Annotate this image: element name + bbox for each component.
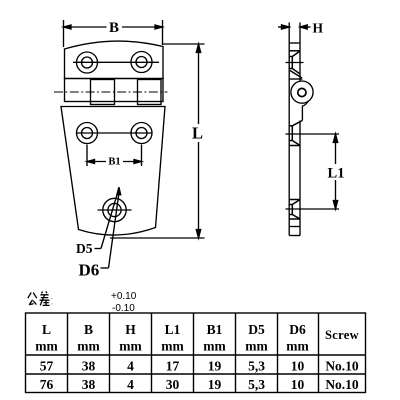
side view strip bottom edge bbox=[289, 235, 300, 237]
svg-text:38: 38 bbox=[82, 377, 96, 392]
svg-text:38: 38 bbox=[82, 359, 96, 374]
bottom plate holes center line bbox=[76, 132, 153, 134]
table data row 2 bbox=[40, 377, 359, 392]
countersunk hole 1 (section) bbox=[286, 51, 304, 74]
pivot lobe bbox=[289, 71, 313, 121]
dimension H arrows bbox=[278, 25, 311, 29]
svg-text:30: 30 bbox=[166, 377, 180, 392]
svg-text:4: 4 bbox=[127, 359, 134, 374]
side view strip right edge lower bbox=[299, 121, 301, 236]
countersunk hole 3 (section) bbox=[286, 200, 304, 220]
svg-text:mm: mm bbox=[35, 339, 58, 354]
table header row bbox=[35, 322, 359, 354]
svg-text:L: L bbox=[192, 124, 203, 143]
svg-text:D5: D5 bbox=[248, 322, 265, 337]
side view strip left edge bbox=[288, 23, 290, 236]
svg-text:76: 76 bbox=[40, 377, 54, 392]
svg-text:D6: D6 bbox=[289, 322, 306, 337]
svg-text:mm: mm bbox=[77, 339, 100, 354]
side view strip bottom cap bbox=[289, 226, 300, 228]
dimension B extension line left bbox=[63, 20, 65, 47]
leader line D6 bbox=[101, 187, 121, 268]
svg-text:17: 17 bbox=[166, 359, 180, 374]
leader line D5 bbox=[95, 193, 118, 249]
svg-text:19: 19 bbox=[208, 359, 222, 374]
svg-text:57: 57 bbox=[40, 359, 54, 374]
center bottom hole inner bbox=[108, 203, 121, 216]
svg-text:L1: L1 bbox=[165, 322, 181, 337]
svg-text:5,3: 5,3 bbox=[248, 359, 265, 374]
svg-text:4: 4 bbox=[127, 377, 134, 392]
svg-text:B1: B1 bbox=[207, 322, 223, 337]
top plate hole right inner bbox=[136, 57, 147, 68]
svg-text:mm: mm bbox=[245, 339, 268, 354]
svg-text:H: H bbox=[125, 322, 136, 337]
svg-text:B1: B1 bbox=[108, 157, 120, 168]
dimension B line bbox=[64, 25, 163, 29]
dimension B1 extension line left bbox=[86, 145, 88, 167]
hinge top plate outline bbox=[65, 41, 164, 78]
svg-text:10: 10 bbox=[291, 359, 305, 374]
dimension L extension line bottom bbox=[110, 237, 205, 239]
dimension L1 extension line top bbox=[304, 133, 340, 135]
dimension L line bbox=[196, 44, 200, 238]
svg-text:mm: mm bbox=[286, 339, 309, 354]
svg-text:No.10: No.10 bbox=[325, 359, 359, 374]
svg-text:Screw: Screw bbox=[325, 328, 359, 342]
side view strip right edge upper bbox=[299, 23, 301, 82]
bottom plate hole right inner bbox=[136, 128, 147, 139]
svg-text:5,3: 5,3 bbox=[248, 377, 265, 392]
knuckle box 4 bbox=[138, 80, 162, 105]
svg-text:+0.10: +0.10 bbox=[111, 291, 137, 302]
hinge bottom plate outline bbox=[61, 107, 165, 236]
center bottom hole outer bbox=[103, 198, 126, 221]
svg-text:H: H bbox=[313, 21, 324, 36]
svg-text:mm: mm bbox=[119, 339, 142, 354]
hinge knuckle band bbox=[65, 79, 164, 102]
svg-text:mm: mm bbox=[203, 339, 226, 354]
svg-text:L: L bbox=[42, 322, 51, 337]
svg-text:mm: mm bbox=[161, 339, 184, 354]
dimension B1 extension line right bbox=[141, 145, 143, 167]
table grid bbox=[26, 313, 366, 393]
svg-text:No.10: No.10 bbox=[325, 377, 359, 392]
top plate hole right outer bbox=[131, 52, 152, 73]
top plate holes center line bbox=[73, 61, 159, 63]
bottom plate hole right outer bbox=[131, 123, 152, 144]
bottom plate hole left inner bbox=[82, 128, 93, 139]
svg-text:B: B bbox=[84, 322, 93, 337]
dimension B extension line right bbox=[162, 20, 164, 45]
countersunk hole 2 (section) bbox=[286, 120, 304, 145]
top plate hole left outer bbox=[77, 52, 98, 73]
dimension L1 extension line bottom bbox=[304, 208, 340, 210]
dimension L1 line bbox=[333, 134, 337, 209]
svg-text:B: B bbox=[109, 20, 119, 36]
svg-text:D5: D5 bbox=[76, 241, 93, 256]
top plate hole left inner bbox=[82, 57, 93, 68]
bottom plate hole left outer bbox=[77, 123, 98, 144]
dimension B1 line bbox=[87, 160, 142, 164]
hinge pin center line bbox=[54, 91, 168, 93]
tolerance label 公差: bbox=[28, 291, 52, 305]
dimension L extension line top bbox=[163, 43, 205, 45]
svg-text:10: 10 bbox=[291, 377, 305, 392]
table data row 1 bbox=[40, 359, 359, 374]
svg-text:L1: L1 bbox=[328, 166, 345, 182]
knuckle box 2 bbox=[91, 80, 115, 105]
svg-text:D6: D6 bbox=[79, 261, 100, 280]
side view strip top cap bbox=[289, 42, 300, 44]
center bottom hole center line bbox=[98, 209, 132, 211]
svg-text:19: 19 bbox=[208, 377, 222, 392]
